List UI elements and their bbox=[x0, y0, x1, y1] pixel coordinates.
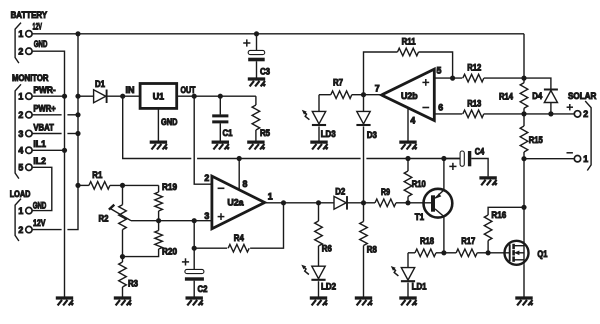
junction OUT/C1 bbox=[218, 94, 223, 99]
svg-text:8: 8 bbox=[243, 179, 248, 189]
net label GND (battery) bbox=[34, 39, 48, 49]
wire solar - row bbox=[524, 158, 574, 160]
ground (LD2) bbox=[310, 298, 327, 305]
svg-text:IN: IN bbox=[126, 85, 135, 95]
svg-text:VBAT: VBAT bbox=[33, 122, 54, 132]
svg-text:LD2: LD2 bbox=[321, 281, 336, 291]
connector MONITOR label bbox=[12, 73, 49, 83]
svg-text:R8: R8 bbox=[367, 244, 377, 254]
connector LOAD pin 2 (12V) bbox=[18, 225, 32, 235]
wire U1 OUT bbox=[177, 96, 256, 105]
resistor R13 bbox=[463, 98, 524, 117]
junction D1/U1-IN/supply bbox=[120, 94, 125, 99]
diode D4 bbox=[524, 78, 558, 114]
resistor R14 bbox=[499, 78, 528, 114]
net label 12V (load) bbox=[33, 218, 46, 228]
connector J4 SOLAR bracket bbox=[585, 101, 591, 171]
resistor R6 bbox=[315, 203, 332, 266]
svg-text:BATTERY: BATTERY bbox=[11, 10, 48, 20]
svg-text:R4: R4 bbox=[234, 233, 244, 243]
wire T1 emitter down bbox=[443, 217, 445, 253]
junction solar-/R15 bbox=[521, 156, 526, 161]
LED LD2 bbox=[301, 265, 336, 297]
wire 12V to R1 bbox=[78, 184, 79, 186]
junction PWR+/12V bbox=[75, 112, 80, 117]
svg-text:R1: R1 bbox=[92, 170, 102, 180]
svg-text:R12: R12 bbox=[467, 62, 481, 72]
wire U1 GND pin bbox=[157, 108, 159, 140]
svg-text:5: 5 bbox=[437, 66, 442, 76]
svg-text:12V: 12V bbox=[33, 218, 46, 228]
svg-text:R9: R9 bbox=[381, 187, 390, 197]
connector MONITOR pin 5 (IL2) bbox=[18, 163, 32, 173]
connector SOLAR pin 2 (+) bbox=[567, 104, 589, 119]
resistor R19 bbox=[155, 182, 177, 221]
junction 12V/R1/load bbox=[75, 183, 80, 188]
wire U1 OUT to U2a pin2 bbox=[194, 96, 212, 184]
ground (Q1) bbox=[515, 298, 532, 305]
LED LD3 bbox=[302, 95, 336, 141]
net label GND (load) bbox=[33, 200, 47, 210]
junction solar+/R14 bbox=[521, 111, 526, 116]
svg-text:SOLAR: SOLAR bbox=[568, 91, 597, 101]
svg-text:C3: C3 bbox=[260, 67, 270, 77]
wire U2b pin 4 bbox=[407, 108, 409, 141]
resistor R3 bbox=[119, 257, 138, 297]
connector MONITOR pin 2 (PWR+) bbox=[18, 110, 32, 120]
connector BATTERY pin 2 bbox=[18, 47, 32, 57]
svg-text:1: 1 bbox=[18, 92, 23, 102]
wire D1 cathode to U1 IN bbox=[107, 95, 141, 97]
svg-text:2: 2 bbox=[18, 110, 23, 120]
svg-text:3: 3 bbox=[18, 129, 23, 139]
wire battery GND bbox=[32, 51, 64, 296]
capacitor C4 bbox=[444, 147, 488, 177]
ground (R3) bbox=[114, 298, 131, 305]
svg-text:OUT: OUT bbox=[181, 85, 196, 95]
connector LOAD label bbox=[10, 189, 31, 199]
connector J2 MONITOR bracket bbox=[15, 84, 21, 178]
junction pin5/R11 bbox=[450, 76, 455, 81]
svg-text:IL2: IL2 bbox=[33, 156, 46, 166]
wire 12V to D1 anode bbox=[78, 95, 94, 97]
svg-text:R18: R18 bbox=[420, 236, 434, 246]
resistor R18 bbox=[408, 236, 444, 257]
connector BATTERY pin 1 bbox=[18, 29, 32, 39]
diode D3 bbox=[356, 95, 377, 203]
ground (C1) bbox=[212, 142, 229, 149]
svg-text:D3: D3 bbox=[367, 130, 377, 140]
svg-text:Q1: Q1 bbox=[537, 249, 547, 259]
wire +12V top rail bbox=[78, 33, 524, 35]
connector MONITOR pin 4 (IL1) bbox=[18, 146, 32, 156]
diode D2 bbox=[334, 187, 347, 210]
net label 12V (battery) bbox=[33, 21, 43, 31]
wire pin7 to U2b bbox=[364, 94, 382, 96]
junction R19/R20/wiper bbox=[156, 218, 161, 223]
diode D1 bbox=[94, 79, 107, 103]
wire load 12V up to R1 junction (hop over gnd line) bbox=[32, 185, 78, 229]
junction OUT/ref column bbox=[192, 94, 197, 99]
junction wiper/C2 column bbox=[192, 218, 197, 223]
wire supply row (hops over ref and D3 columns) bbox=[123, 96, 461, 158]
junction R9/R10 bbox=[405, 200, 410, 205]
junction R2 bottom/R3/R20 bbox=[120, 254, 125, 259]
svg-text:12V: 12V bbox=[33, 21, 43, 31]
svg-text:1: 1 bbox=[268, 191, 273, 201]
capacitor C1 bbox=[212, 96, 232, 140]
wire battery 12V to rail bbox=[32, 33, 78, 35]
wire T1 collector bbox=[443, 159, 445, 191]
resistor R11 bbox=[364, 36, 453, 94]
wire Q1 source to ground bbox=[523, 265, 525, 297]
svg-text:D2: D2 bbox=[335, 187, 345, 197]
junction supply/U2a pin8 bbox=[237, 156, 242, 161]
svg-text:LD3: LD3 bbox=[321, 129, 336, 139]
connector MONITOR pin 1 (PWR-) bbox=[18, 92, 32, 102]
wire U2b pin 5 row bbox=[434, 77, 462, 79]
svg-text:4: 4 bbox=[18, 146, 23, 156]
svg-text:2: 2 bbox=[18, 225, 23, 235]
transistor T1 (PNP) bbox=[415, 189, 453, 222]
svg-text:LOAD: LOAD bbox=[10, 189, 31, 199]
svg-text:3: 3 bbox=[204, 211, 209, 221]
svg-text:R11: R11 bbox=[402, 36, 416, 46]
resistor R17 bbox=[444, 236, 488, 257]
junction pin7/R7/R11/D3 bbox=[361, 92, 366, 97]
junction PWR-/GND bbox=[62, 94, 67, 99]
resistor R1 bbox=[78, 170, 159, 189]
connector SOLAR label bbox=[568, 91, 597, 101]
wire rail corner down bbox=[523, 34, 525, 78]
wire IL2 to load GND bbox=[32, 167, 52, 210]
svg-text:GND: GND bbox=[33, 200, 47, 210]
svg-text:PWR-: PWR- bbox=[33, 85, 55, 95]
wire VBAT to 12V line (hop over gnd line) bbox=[32, 133, 78, 135]
junction VBAT/12V bbox=[75, 131, 80, 136]
junction supply/T1 collector/C4 bbox=[441, 156, 446, 161]
connector J3 LOAD bracket bbox=[15, 199, 21, 241]
junction rail/C3 bbox=[254, 31, 259, 36]
ground (R5) bbox=[247, 142, 264, 149]
svg-text:C4: C4 bbox=[475, 147, 485, 157]
svg-text:PWR+: PWR+ bbox=[33, 104, 55, 114]
svg-text:1: 1 bbox=[583, 154, 588, 164]
capacitor C2 bbox=[182, 258, 208, 296]
svg-text:R13: R13 bbox=[467, 98, 481, 108]
svg-text:R5: R5 bbox=[260, 128, 270, 138]
junction rail/R16 bbox=[521, 205, 526, 210]
ground (U2b pin4) bbox=[399, 142, 416, 149]
svg-text:C1: C1 bbox=[223, 128, 233, 138]
junction IL1/GND bbox=[62, 148, 67, 153]
ground (C4) bbox=[479, 178, 496, 185]
junction D2/D3/R8/R9 node bbox=[361, 200, 366, 205]
connector J1 BATTERY bracket bbox=[15, 23, 21, 64]
resistor R20 bbox=[123, 221, 178, 257]
resistor R12 bbox=[463, 62, 524, 82]
regulator U1 bbox=[126, 84, 196, 128]
resistor R16 bbox=[484, 207, 524, 253]
net label IL2 bbox=[33, 156, 46, 166]
connector BATTERY label bbox=[11, 10, 48, 20]
wire U2a output bbox=[265, 202, 334, 204]
wire 12V vertical to D1/R1 bbox=[77, 34, 79, 186]
LED LD1 bbox=[391, 253, 427, 297]
svg-text:R15: R15 bbox=[529, 135, 543, 145]
svg-text:2: 2 bbox=[18, 47, 23, 57]
junction supply/R10 bbox=[405, 156, 410, 161]
wire U2b pin 6 row bbox=[434, 113, 462, 115]
resistor R10 bbox=[404, 159, 426, 203]
resistor R4 bbox=[194, 203, 283, 252]
resistor R15 bbox=[520, 114, 543, 159]
wire PWR- to gnd line bbox=[32, 95, 64, 97]
connector LOAD pin 1 (GND) bbox=[18, 206, 32, 216]
wire wiper row to U2a pin3 bbox=[131, 220, 212, 222]
junction battery 12V / rail bbox=[75, 31, 80, 36]
svg-text:LD1: LD1 bbox=[412, 281, 427, 291]
svg-text:R17: R17 bbox=[461, 236, 475, 246]
wire U2a pin 8 (V+) bbox=[238, 159, 240, 190]
svg-text:R14: R14 bbox=[499, 91, 513, 101]
svg-text:R3: R3 bbox=[128, 279, 138, 289]
svg-text:2: 2 bbox=[583, 109, 588, 119]
svg-text:R19: R19 bbox=[162, 182, 177, 192]
ground (U1) bbox=[150, 142, 167, 149]
svg-text:GND: GND bbox=[34, 39, 48, 49]
junction rail/R12/D4 bbox=[521, 76, 526, 81]
svg-text:D1: D1 bbox=[95, 79, 105, 89]
op-amp U2a bbox=[204, 173, 272, 229]
svg-text:4: 4 bbox=[410, 115, 415, 125]
svg-text:R6: R6 bbox=[322, 244, 332, 254]
svg-text:5: 5 bbox=[18, 163, 23, 173]
svg-text:MONITOR: MONITOR bbox=[12, 73, 49, 83]
op-amp U2b bbox=[375, 66, 444, 126]
trimmer R2 bbox=[99, 185, 132, 256]
wire R9 to T1 base bbox=[408, 202, 433, 204]
svg-text:U2a: U2a bbox=[227, 198, 243, 208]
ground (C2) bbox=[186, 298, 203, 305]
svg-text:IL1: IL1 bbox=[33, 139, 46, 149]
mosfet Q1 bbox=[488, 241, 547, 265]
svg-text:R20: R20 bbox=[162, 246, 177, 256]
svg-text:R7: R7 bbox=[333, 78, 343, 88]
svg-text:6: 6 bbox=[438, 103, 443, 113]
ground (LD1) bbox=[399, 298, 416, 305]
svg-text:U1: U1 bbox=[153, 91, 164, 101]
connector MONITOR pin 3 (VBAT) bbox=[18, 129, 32, 139]
svg-text:1: 1 bbox=[18, 206, 23, 216]
svg-text:T1: T1 bbox=[415, 212, 424, 222]
wire PWR+ to 12V line (hop over gnd line) bbox=[32, 114, 78, 116]
svg-text:R2: R2 bbox=[99, 214, 109, 224]
resistor R8 bbox=[360, 203, 377, 297]
wire rail down to Q1 drain bbox=[523, 159, 525, 241]
junction R1/R2 bbox=[120, 183, 125, 188]
resistor R5 bbox=[252, 105, 270, 141]
wire pin3 column bbox=[193, 221, 195, 270]
junction R17/R16/Q1 gate bbox=[486, 250, 491, 255]
net label PWR+ bbox=[33, 104, 55, 114]
ground (battery GND bottom) bbox=[56, 298, 73, 305]
capacitor C3 bbox=[243, 34, 270, 78]
ground (LD3) bbox=[310, 142, 327, 149]
connector SOLAR pin 1 (-) bbox=[567, 153, 589, 164]
resistor R9 bbox=[364, 187, 409, 207]
net label VBAT bbox=[33, 122, 54, 132]
junction 12V/D1 row bbox=[75, 94, 80, 99]
wire D2 cathode to node bbox=[347, 202, 364, 204]
svg-text:D4: D4 bbox=[532, 91, 542, 101]
net label PWR- bbox=[33, 85, 55, 95]
svg-text:2: 2 bbox=[204, 173, 209, 183]
junction R4/C2 bbox=[192, 246, 197, 251]
wire IL1 to gnd line bbox=[32, 149, 64, 151]
ground (R8) bbox=[355, 298, 372, 305]
net label IL1 bbox=[33, 139, 46, 149]
svg-text:GND: GND bbox=[161, 117, 178, 127]
ground (C3) bbox=[248, 79, 265, 86]
wire solar + row bbox=[524, 113, 574, 115]
svg-text:7: 7 bbox=[375, 83, 380, 93]
svg-text:C2: C2 bbox=[198, 284, 208, 294]
svg-text:R10: R10 bbox=[412, 179, 426, 189]
svg-text:R16: R16 bbox=[491, 210, 506, 220]
svg-text:1: 1 bbox=[18, 29, 23, 39]
junction solar+/D4 bbox=[548, 111, 553, 116]
junction output/R6 bbox=[316, 200, 321, 205]
svg-text:U2b: U2b bbox=[401, 91, 418, 101]
resistor R7 bbox=[319, 78, 364, 99]
junction T1 emitter/R18/R17 bbox=[441, 250, 446, 255]
junction output/R4 bbox=[281, 200, 286, 205]
